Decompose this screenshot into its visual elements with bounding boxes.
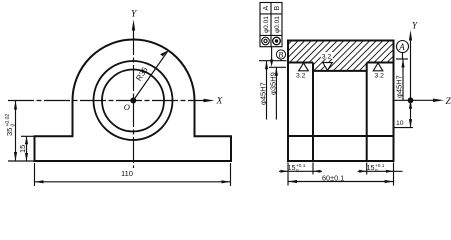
- base top line: [288, 135, 394, 137]
- svg-text:0: 0: [375, 168, 378, 174]
- part outer rectangle: [288, 41, 394, 162]
- svg-text:φ45H7: φ45H7: [395, 75, 404, 98]
- svg-text:15: 15: [288, 163, 296, 172]
- bore surface lines (top band bottom edges): [288, 62, 313, 64]
- dimension 10 line (on Y axis extension): [410, 100, 412, 127]
- Y axis arrowhead: [132, 20, 135, 31]
- svg-text:B: B: [274, 6, 281, 11]
- svg-text:φ35H9: φ35H9: [269, 72, 278, 95]
- svg-text:3.2: 3.2: [375, 73, 385, 80]
- svg-text:A: A: [398, 42, 405, 52]
- svg-text:15: 15: [367, 163, 375, 172]
- svg-text:3.2: 3.2: [322, 53, 332, 60]
- Y axis centerline: [133, 29, 135, 168]
- bearing body outline (dome + base): [35, 40, 232, 162]
- Y axis (right view): [410, 39, 412, 100]
- svg-text:B: B: [278, 51, 283, 60]
- dimension 35 text (rotated): [5, 114, 17, 136]
- svg-text:0: 0: [296, 168, 299, 174]
- dimension 35 line: [15, 101, 17, 162]
- dimension 60±0.1: [288, 181, 394, 183]
- svg-text:10: 10: [396, 120, 404, 127]
- dimension 15 line: [26, 136, 28, 161]
- X axis centerline: [8, 100, 209, 102]
- dimension 10 : extension line: [394, 127, 414, 129]
- Z axis (right view): [394, 99, 434, 101]
- bore circle φ35H9: [102, 70, 164, 132]
- dimension 35 +0.02/0 : extension of bottom edge: [8, 160, 35, 162]
- datum flag B (left): [276, 50, 285, 59]
- frame col1 concentricity symbol: [262, 37, 270, 45]
- φ35H9 extension line (left): [269, 66, 286, 68]
- svg-text:A: A: [263, 6, 270, 11]
- φ45H7 extension tick (right): [396, 58, 408, 60]
- svg-text:60±0.1: 60±0.1: [322, 174, 344, 183]
- radius leader R35: [133, 52, 167, 101]
- svg-text:35: 35: [5, 128, 14, 136]
- middle bore surface line: [313, 70, 367, 72]
- bore circle φ45H7: [94, 61, 173, 140]
- dimension 15 : extension of step line: [21, 135, 35, 137]
- origin dot: [408, 97, 414, 103]
- svg-text:15: 15: [18, 145, 27, 153]
- dimension 110 line: [35, 181, 231, 183]
- counterbore vertical right: [366, 63, 368, 162]
- φ45H7 dimension line (right): [402, 59, 404, 100]
- datum flag A (right): [397, 41, 409, 53]
- hatched section: top band: [288, 41, 394, 71]
- dimension 15+0.1/0 left: [279, 170, 322, 172]
- svg-text:O: O: [124, 102, 130, 112]
- svg-text:X: X: [216, 97, 224, 107]
- φ45H7 extension line (left): [259, 60, 287, 62]
- svg-text:φ0.01: φ0.01: [274, 16, 281, 33]
- φ35H9 dimension line (left): [275, 67, 277, 119]
- svg-text:φ45H7: φ45H7: [258, 82, 267, 105]
- svg-text:0: 0: [11, 124, 17, 127]
- roughness symbol middle bore: [321, 52, 333, 59]
- svg-text:Z: Z: [446, 97, 451, 107]
- φ45H7 dimension line (left): [266, 61, 268, 120]
- roughness symbol left counterbore: [299, 63, 309, 71]
- dimension 110 : extension lines: [34, 163, 36, 186]
- dimension 15+0.1/0 right: [358, 170, 403, 172]
- frame col2 concentricity symbol: [273, 37, 281, 45]
- svg-text:3.2: 3.2: [296, 73, 306, 80]
- counterbore vertical left: [312, 63, 314, 162]
- leader from frames to φ35H9: [271, 47, 273, 64]
- center point O: [130, 98, 136, 104]
- roughness symbol right counterbore: [373, 63, 383, 71]
- svg-text:φ0.01: φ0.01: [263, 16, 270, 33]
- svg-text:110: 110: [121, 169, 133, 178]
- X axis arrowhead: [204, 99, 215, 102]
- bottom extension lines: [287, 163, 289, 186]
